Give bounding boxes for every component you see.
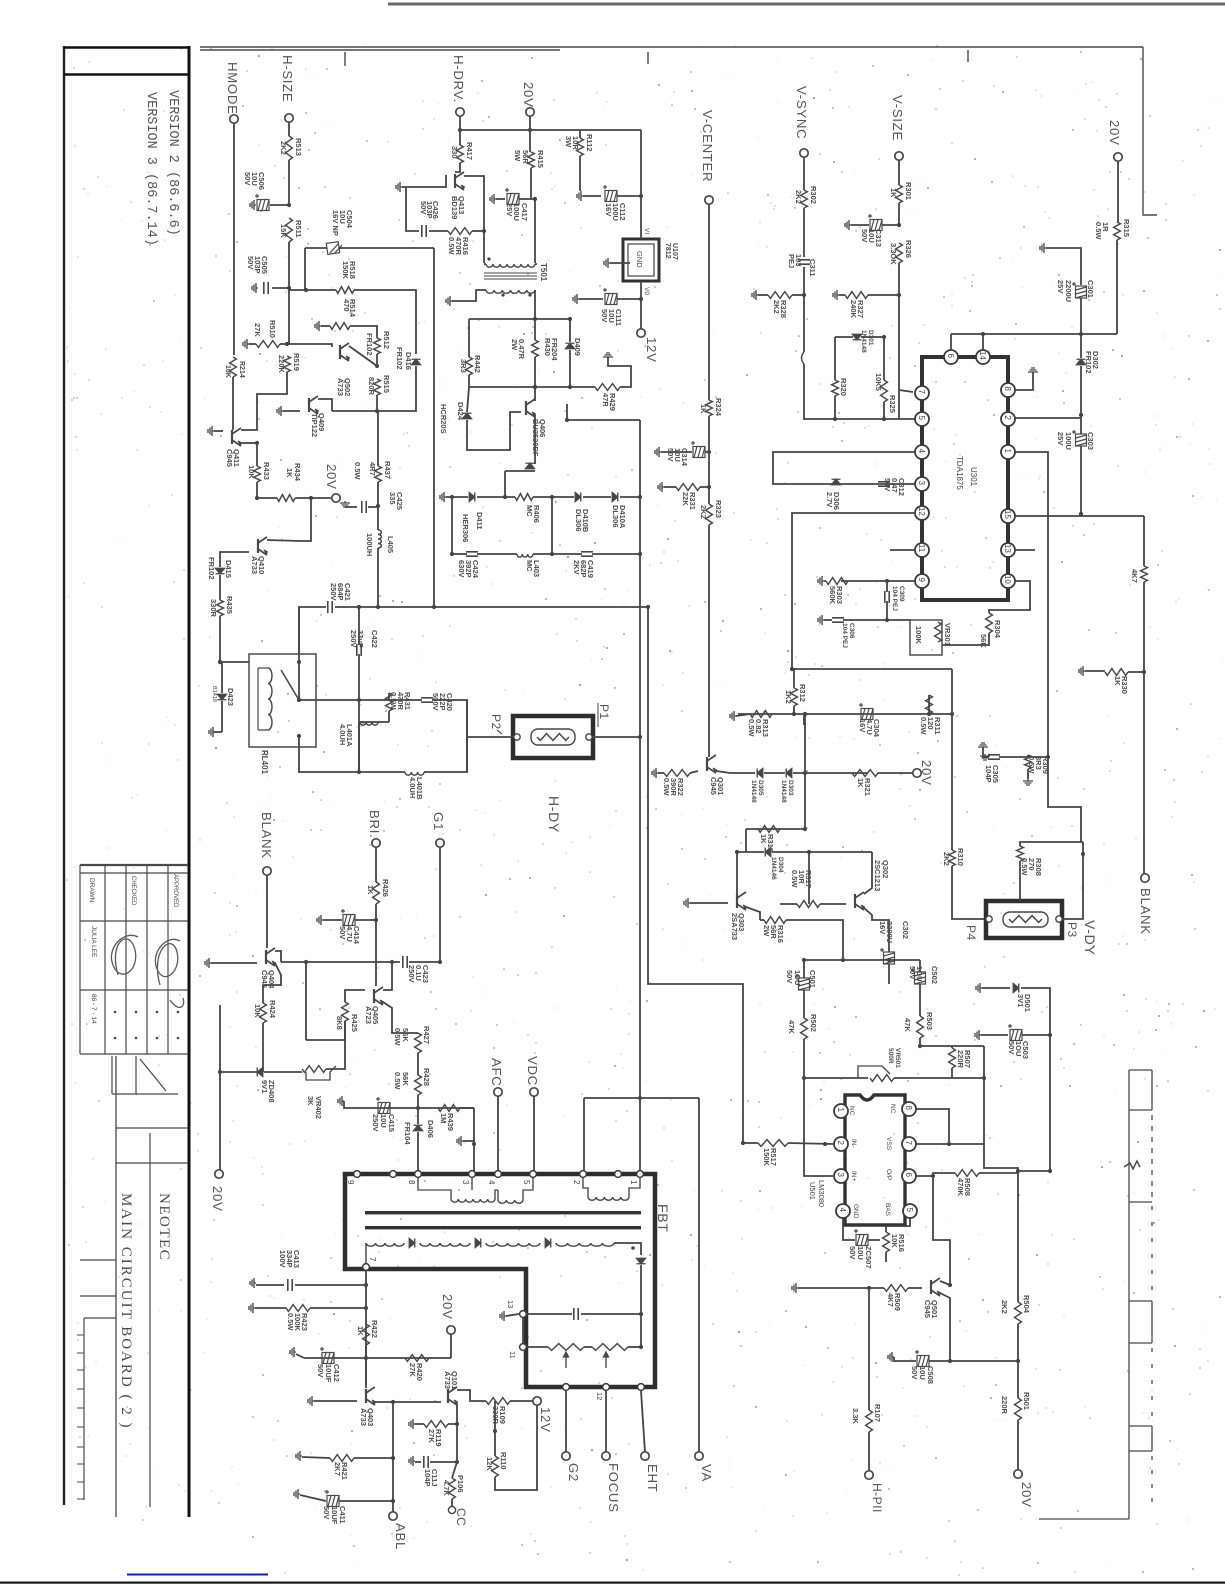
svg-text:P4: P4 (964, 925, 978, 941)
wire C504 down (433, 248, 435, 607)
wire pin1 (1015, 452, 1048, 757)
svg-text:VR301: VR301 (943, 623, 952, 646)
junction (391, 1456, 395, 1460)
pin 5 (903, 1204, 917, 1218)
resistor R504 (1015, 1302, 1022, 1324)
wire (429, 230, 448, 232)
svg-text:R513: R513 (294, 138, 303, 156)
ground at pin8 (1028, 368, 1038, 374)
svg-text:4: 4 (917, 449, 926, 454)
ground at Q409 (277, 406, 283, 416)
wire (894, 1357, 916, 1361)
junction (1079, 332, 1083, 336)
company box (116, 1128, 188, 1507)
FBT pin 1 (637, 1171, 644, 1178)
junction (867, 1286, 871, 1290)
junction (391, 1499, 395, 1503)
svg-text:0.5W: 0.5W (447, 237, 456, 255)
svg-text:104P: 104P (423, 1469, 432, 1487)
wire (772, 851, 809, 853)
resistor R109 (486, 1398, 510, 1405)
svg-text:12V: 12V (644, 337, 659, 363)
svg-text:470: 470 (342, 299, 351, 312)
wire (455, 163, 460, 172)
wire (803, 157, 805, 190)
schematic top border (200, 47, 1143, 50)
revision table (80, 865, 188, 1054)
junction (638, 1096, 642, 1100)
wire (495, 1405, 537, 1490)
wire to R512 (350, 326, 377, 338)
svg-text:R427: R427 (422, 1026, 431, 1044)
terminal 20V bottom (447, 1326, 455, 1334)
wire pin13 stub (1015, 549, 1035, 551)
capacitor C508 (915, 1350, 929, 1367)
wire (583, 1098, 585, 1171)
resistor R321 (852, 770, 878, 777)
wire (1018, 1170, 1050, 1172)
wire (803, 990, 805, 1018)
svg-text:DRAWN: DRAWN (88, 878, 95, 903)
svg-text:50V: 50V (600, 309, 609, 322)
capacitor C419 (581, 552, 593, 556)
wire 20V left rail (219, 1005, 221, 1170)
FBT pin 9 (354, 1171, 361, 1178)
junction (802, 1076, 806, 1080)
wire (708, 487, 710, 504)
resistor R503 (917, 1016, 924, 1038)
svg-text:12: 12 (917, 507, 926, 516)
wire (1080, 366, 1082, 415)
wire pin11 stub (890, 549, 915, 551)
svg-text:250V: 250V (407, 965, 416, 983)
wire pin4 (843, 1218, 855, 1240)
svg-text:O/P: O/P (885, 1169, 892, 1180)
junction (646, 605, 650, 609)
junction (802, 958, 806, 962)
svg-text:C301: C301 (1086, 280, 1095, 298)
ground at R309 (1023, 779, 1033, 785)
svg-text:0.5W: 0.5W (286, 1313, 295, 1331)
svg-text:IN-: IN- (850, 1139, 857, 1148)
svg-text:560K: 560K (828, 586, 837, 605)
svg-text:12K: 12K (485, 1457, 494, 1471)
inductor L401B (405, 772, 424, 775)
wire (300, 1495, 326, 1501)
svg-text:50V: 50V (243, 172, 252, 185)
wire (983, 747, 989, 757)
junction (638, 552, 642, 556)
svg-text:HCR20S: HCR20S (439, 404, 448, 434)
junction (455, 1422, 459, 1426)
capacitor C503 (1008, 1024, 1022, 1041)
svg-text:220R: 220R (1000, 1396, 1009, 1415)
wire (894, 1077, 947, 1079)
transistor Q404 (266, 948, 275, 966)
wire (690, 902, 728, 904)
wire (306, 1021, 345, 1040)
wire (506, 1314, 519, 1316)
junction (493, 1429, 497, 1433)
svg-text:PEJ: PEJ (787, 254, 796, 268)
wire (527, 1346, 548, 1348)
wire R323 to Q301 (708, 525, 710, 755)
FBT core bar 1 (365, 1211, 641, 1214)
svg-text:C303: C303 (1086, 432, 1095, 450)
pin 4 (836, 1204, 850, 1218)
terminal G2 (562, 1452, 570, 1460)
wire pin7 stub (899, 390, 913, 392)
pin 9 (915, 574, 929, 588)
wire 12V down (494, 1401, 496, 1431)
ground at R429 (603, 353, 613, 359)
wire Q101 emitter (448, 1403, 457, 1424)
svg-text:104P: 104P (984, 765, 993, 783)
IC U107 7812 box (623, 239, 659, 281)
wire (640, 1097, 699, 1099)
transistor Q303 (737, 892, 746, 910)
junction (503, 495, 507, 499)
wire (376, 395, 378, 411)
wire Q303 emitter (746, 907, 760, 920)
wire rail y960 (804, 959, 920, 961)
junction (790, 667, 794, 671)
resistor R417 (457, 145, 464, 163)
inductor (268, 668, 272, 730)
resistor R312 (791, 688, 798, 706)
wire ladder top 5 (620, 496, 640, 498)
resistor R420 (405, 1355, 429, 1362)
svg-text:1K: 1K (856, 778, 865, 788)
svg-text:H-DRV.: H-DRV. (451, 55, 466, 103)
pin 11 (915, 543, 929, 557)
terminal BLANK (263, 867, 271, 875)
FBT pin 13 (520, 1311, 527, 1318)
svg-text:7812: 7812 (664, 243, 671, 259)
pin 3 (915, 477, 929, 491)
pin 1 (1001, 445, 1015, 459)
svg-text:1K: 1K (356, 1326, 365, 1336)
junction (1046, 755, 1050, 759)
junction (1079, 512, 1083, 516)
junction (357, 770, 361, 774)
diode (1013, 984, 1019, 993)
wire (661, 451, 692, 453)
wire (617, 195, 641, 197)
ground at Q404 (205, 958, 211, 968)
wire (280, 343, 287, 345)
svg-text:TIP122: TIP122 (310, 413, 319, 437)
svg-text:NEOTEC: NEOTEC (156, 1193, 172, 1261)
wire (220, 1071, 263, 1073)
junction (792, 712, 796, 716)
wire (664, 486, 676, 488)
svg-text:R112: R112 (585, 134, 594, 152)
wire (984, 1046, 1018, 1171)
svg-text:27K: 27K (253, 323, 262, 337)
svg-text:R324: R324 (714, 398, 723, 417)
svg-text:R512: R512 (382, 331, 391, 349)
wire (1143, 582, 1145, 672)
ground at R331 (658, 482, 664, 492)
ground at C505 (252, 283, 258, 293)
svg-text:9: 9 (346, 1180, 355, 1185)
svg-text:56K: 56K (979, 634, 988, 648)
wire (288, 288, 290, 344)
junction (841, 958, 845, 962)
pin 2 (1001, 412, 1015, 426)
transformer T501 dots (487, 257, 490, 260)
svg-text:R422: R422 (370, 1320, 379, 1338)
wire (1021, 988, 1050, 1035)
relay contact 2 (297, 698, 301, 702)
wire V-SYNC hook (802, 352, 805, 364)
wire (323, 919, 342, 921)
svg-text:4: 4 (487, 1180, 496, 1185)
svg-text:12V: 12V (538, 1407, 553, 1433)
svg-text:R511: R511 (294, 220, 303, 238)
wire ladder bottom 1 (452, 553, 467, 555)
IC U301 outline (922, 357, 1008, 600)
svg-text:NC: NC (848, 1106, 855, 1116)
wire (415, 1423, 424, 1425)
ground at R322 (652, 768, 658, 778)
wire (705, 451, 709, 453)
VR301 element (935, 622, 942, 642)
capacitor C423 (403, 956, 407, 968)
junction (1079, 413, 1083, 417)
svg-text:86 - 7 - 14: 86 - 7 - 14 (90, 994, 97, 1024)
junction (882, 417, 886, 421)
wire (310, 1307, 366, 1309)
wire ladder left (451, 497, 453, 554)
resistor R313 (750, 711, 772, 718)
transistor Q502 (340, 343, 349, 361)
svg-text:4.0UH: 4.0UH (338, 724, 347, 745)
wire (358, 700, 360, 772)
capacitor C301 (1072, 282, 1087, 298)
svg-text:50V: 50V (246, 256, 255, 269)
border tick 1 (344, 52, 346, 66)
svg-text:50V: 50V (338, 926, 347, 939)
svg-text:250V: 250V (371, 1114, 380, 1132)
junction (897, 293, 901, 297)
wire (211, 962, 257, 964)
wire (335, 606, 378, 608)
capacitor C422 (357, 644, 361, 656)
resistor R303 (826, 578, 848, 585)
resistor R512 (374, 338, 381, 354)
wire (1046, 248, 1081, 285)
border tick 3 (967, 50, 969, 62)
resistor R439 (438, 1105, 460, 1112)
svg-text:R510: R510 (268, 320, 277, 338)
junction (364, 1283, 368, 1287)
pin 10 (1001, 574, 1015, 588)
connector P3 pin (1056, 916, 1062, 922)
relay RL401 box (249, 654, 316, 747)
capacitor C507 (854, 1229, 868, 1246)
diode (832, 479, 841, 485)
wire (746, 828, 805, 830)
wire (1022, 1034, 1050, 1036)
svg-text:2K2: 2K2 (699, 505, 708, 519)
wire (1080, 415, 1082, 434)
FBT pin 2 (580, 1171, 587, 1178)
wire (640, 299, 642, 329)
svg-text:VDC: VDC (525, 1056, 540, 1086)
wire to pin3 (804, 1078, 833, 1176)
wire (457, 1390, 486, 1401)
wire (886, 581, 888, 592)
wire (1028, 755, 1048, 757)
svg-text:C302: C302 (901, 921, 910, 939)
FBT pin (390, 1171, 397, 1178)
resistor R415 (528, 152, 535, 168)
svg-text:R426: R426 (381, 879, 390, 897)
ground at C301 (1040, 243, 1046, 253)
wire (579, 298, 603, 300)
resistor R311 (926, 695, 933, 714)
wire (888, 964, 890, 984)
wire (424, 737, 467, 772)
svg-text:VA: VA (699, 1464, 714, 1482)
wire T501 sec right (534, 290, 536, 319)
wire (415, 1461, 421, 1463)
svg-text:BD139: BD139 (450, 196, 459, 219)
wire Q502 emitter (287, 344, 332, 347)
inductor (366, 1243, 404, 1246)
yoke coil 2 (1009, 916, 1042, 923)
svg-text:2: 2 (572, 1180, 581, 1185)
wire (898, 160, 900, 185)
resistor R421 (330, 1455, 354, 1462)
resistor R428 (415, 1075, 422, 1095)
wire pin6 (916, 1175, 933, 1177)
wire (288, 160, 290, 205)
svg-text:BRI.: BRI. (367, 810, 382, 838)
junction (639, 194, 643, 198)
ground at R514 (315, 321, 321, 331)
wire rail y962 (281, 961, 400, 963)
junction (458, 128, 462, 132)
wire to Q406 base (467, 412, 521, 450)
svg-text:1: 1 (629, 1180, 638, 1185)
wire pin15 (1015, 515, 1144, 517)
svg-text:D415: D415 (224, 560, 233, 578)
terminal G1 (436, 839, 444, 847)
resistor R301 (896, 185, 903, 203)
wire (824, 580, 826, 582)
resistor R106 (449, 1478, 456, 1499)
transistor Q403 (366, 1387, 375, 1405)
wire (640, 281, 642, 299)
page top scan line (388, 3, 1225, 6)
wire to P2 (467, 736, 513, 738)
V-DY yoke symbol (1003, 912, 1048, 927)
resistor R435 (217, 600, 224, 616)
svg-text:0.5W: 0.5W (747, 719, 756, 737)
svg-text:0.5W: 0.5W (662, 778, 671, 796)
wire (249, 343, 256, 345)
svg-text:0.5W: 0.5W (389, 692, 398, 710)
wire (535, 318, 570, 320)
ground at R509 (792, 1283, 798, 1293)
junction (472, 1142, 476, 1146)
wire (527, 1313, 572, 1315)
pin 6 (902, 1169, 916, 1183)
svg-text:LM3080: LM3080 (817, 1180, 826, 1207)
diode (566, 343, 575, 349)
junction (948, 1283, 952, 1287)
junction (707, 485, 711, 489)
ground at Q413 (396, 182, 402, 192)
wire Q406 emitter (534, 415, 536, 464)
svg-text:R428: R428 (422, 1068, 431, 1086)
wire (256, 482, 258, 498)
svg-text:R435: R435 (225, 596, 234, 614)
capacitor C506 (255, 194, 269, 211)
wire (257, 497, 277, 499)
wire (389, 699, 422, 701)
diode (409, 1239, 415, 1248)
svg-text:D423: D423 (226, 688, 235, 706)
junction (416, 1106, 420, 1110)
svg-text:335: 335 (388, 492, 397, 505)
svg-text:2K2: 2K2 (772, 300, 781, 314)
wire (882, 224, 899, 226)
svg-text:D409: D409 (573, 338, 582, 356)
wire (432, 700, 467, 737)
svg-text:27K: 27K (427, 1429, 436, 1443)
wire (339, 1500, 393, 1502)
junction (533, 197, 537, 201)
wire (868, 1239, 880, 1241)
svg-text:104 PEJ: 104 PEJ (891, 586, 898, 611)
wire (804, 773, 806, 829)
resistor R515 (374, 379, 381, 395)
junction (1048, 1033, 1052, 1037)
terminal 12V (637, 329, 645, 337)
wire (803, 208, 805, 257)
title column line (115, 1056, 117, 1517)
svg-text:R437: R437 (383, 461, 392, 479)
terminal EHT (641, 1452, 649, 1460)
wire (472, 230, 484, 232)
capacitor C304 (859, 703, 873, 720)
terminal HMODE (230, 115, 238, 123)
svg-text:3: 3 (917, 481, 926, 486)
svg-text:CHECKED: CHECKED (130, 876, 136, 906)
wire (883, 337, 885, 380)
bottom blue line (127, 1574, 268, 1576)
wire (640, 130, 642, 196)
junction (927, 712, 931, 716)
transistor Q101 (448, 1387, 457, 1405)
svg-text:FOCUS: FOCUS (606, 1463, 621, 1513)
svg-text:V-CENTER: V-CENTER (700, 110, 715, 182)
wire (809, 851, 872, 853)
wire long to R517 (648, 607, 743, 1143)
capacitor C111 (603, 288, 617, 305)
FBT bottom pin FOCUS (603, 1384, 610, 1391)
svg-text:50V: 50V (860, 229, 869, 242)
terminal 20V top-right (1114, 153, 1122, 161)
wire (1027, 769, 1029, 779)
svg-text:G2: G2 (566, 1463, 581, 1482)
svg-text:R519: R519 (292, 353, 301, 371)
capacitor C314 (691, 441, 705, 458)
